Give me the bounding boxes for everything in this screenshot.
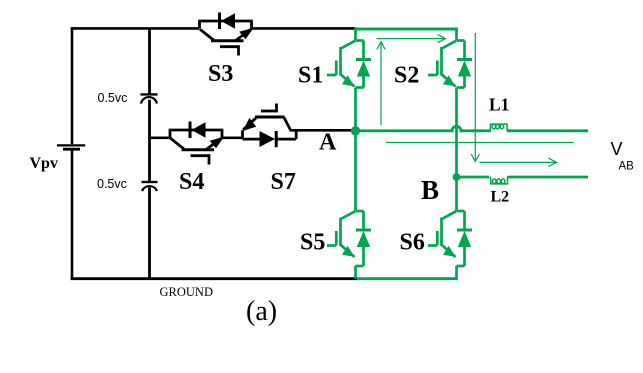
svg-text:AB: AB	[619, 161, 635, 173]
svg-text:S5: S5	[300, 230, 325, 256]
svg-text:A: A	[319, 130, 337, 156]
wire L2 to output	[507, 176, 588, 179]
svg-text:Vpv: Vpv	[30, 155, 58, 172]
inductor L1	[490, 124, 507, 131]
wire node A to L1 with hop over S2 leg	[356, 126, 491, 131]
svg-text:L1: L1	[489, 95, 509, 115]
wire node B to L2	[457, 176, 490, 179]
wire capacitor-leg middle	[148, 100, 151, 182]
wire S6 emitter to bottom rail	[455, 266, 458, 279]
wire S4 to S7	[221, 137, 244, 140]
wire bottom rail (black)	[71, 277, 357, 280]
svg-text:S6: S6	[400, 230, 425, 256]
wire S5 emitter to bottom rail	[354, 266, 357, 279]
capacitor C1 (0.5vc)	[141, 94, 158, 103]
switch S3 (IGBT with antiparallel diode, horizontal)	[198, 13, 254, 56]
svg-text:S1: S1	[298, 63, 323, 89]
switch S4 (IGBT with antiparallel diode, horizontal)	[169, 122, 225, 165]
wire node B to S6 collector	[455, 177, 458, 211]
svg-text:GROUND: GROUND	[160, 285, 213, 299]
svg-text:S7: S7	[271, 169, 296, 195]
transistor S6 (green IGBT with diode)	[428, 211, 472, 266]
wire node A to S5 collector	[354, 131, 357, 211]
transistor S2 (green IGBT with diode)	[428, 29, 472, 88]
svg-text:0.5vc: 0.5vc	[97, 177, 127, 191]
wire green top rail	[354, 28, 458, 31]
current arrow down (right of S2)	[471, 33, 479, 162]
svg-text:B: B	[421, 175, 439, 205]
current arrow right (top)	[377, 34, 446, 42]
wire left vertical lower	[71, 151, 74, 280]
battery Vpv	[57, 145, 85, 149]
wire capacitor-leg top	[148, 28, 151, 95]
wire S2 emitter leg to node B	[455, 88, 458, 178]
svg-text:S3: S3	[208, 61, 233, 87]
current arrow up (between S1 and S2)	[377, 42, 385, 125]
wire L1 to output	[507, 129, 588, 132]
svg-text:V: V	[611, 139, 623, 159]
capacitor C2 (0.5vc)	[142, 182, 158, 191]
inductor L2	[491, 177, 508, 184]
svg-text:(a): (a)	[246, 296, 277, 327]
wire S7 to node A (black)	[290, 129, 356, 132]
svg-text:L2: L2	[491, 189, 510, 206]
svg-text:0.5vc: 0.5vc	[98, 91, 128, 105]
transistor S5 (green IGBT with diode)	[327, 211, 371, 266]
svg-text:S4: S4	[179, 169, 204, 195]
wire green bottom rail	[357, 277, 458, 280]
wire top rail left (black)	[71, 27, 200, 30]
svg-text:S2: S2	[394, 63, 419, 89]
node A junction dot	[351, 126, 360, 135]
wire left vertical upper	[71, 28, 74, 145]
current arrow right (lower)	[480, 158, 557, 166]
thin return line	[386, 141, 574, 143]
switch S7 (IGBT mirrored with series diode, horizontal)	[243, 104, 297, 148]
transistor S1 (green IGBT with diode)	[327, 29, 371, 88]
wire top rail right of S3 (black)	[252, 27, 356, 30]
wire capacitor-leg bottom	[148, 187, 151, 278]
wire S1 emitter leg to node A	[354, 88, 357, 132]
node B junction dot	[453, 173, 461, 181]
wire middle-row stub from cap leg	[150, 137, 172, 140]
